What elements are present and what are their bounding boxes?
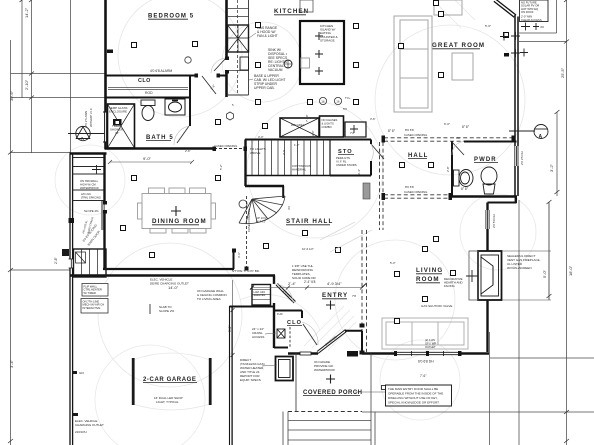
bifold dashed clo [289,327,291,347]
window dim marks below box [521,23,539,31]
window marks east wall [511,32,520,57]
toilet: pwdr [454,170,474,187]
water heater closet [276,357,294,381]
toilet: bath5 [141,100,155,121]
svg-text:3'-2": 3'-2" [549,163,554,172]
dim: fireplace 5ft [502,203,551,301]
tick marks on dashes [250,284,366,290]
svg-text:STORAGE: STORAGE [320,38,335,42]
svg-text:INTERACTIVE: INTERACTIVE [83,306,101,310]
stair rail line [245,175,330,177]
porch west line [295,354,297,413]
wall: step facade y153 [70,152,107,154]
svg-text:16: 16 [336,100,340,104]
svg-text:FUR: FUR [277,312,283,316]
svg-text:(2) 110V: (2) 110V [425,338,435,342]
door: garage entry diagonal [276,284,296,304]
coffee table great room [452,53,473,80]
wall: entry east vertical to south [361,331,363,354]
squares: bath/dining [121,120,268,231]
text: to lights above [250,147,266,155]
wall: dining south [103,268,234,270]
svg-text:4'0 6'8 ALARM: 4'0 6'8 ALARM [150,69,172,73]
ceiling sketch arcs [98,0,536,410]
label: KITCHEN [274,8,309,15]
marker: section A left [68,126,104,140]
note: base upper cab [254,74,285,90]
door leaf: STO [371,144,384,159]
svg-text:NO CHASES: NO CHASES [322,118,338,122]
barn door track gray [101,201,104,230]
wall: garage east [273,276,275,285]
cabinet base kitchen [248,0,250,95]
svg-text:2'-6": 2'-6" [185,149,191,153]
wall stub bedroom west [107,50,113,54]
dimension extension lines right side [490,0,567,445]
wall: bedroom west exterior [104,0,107,112]
wall: east exterior upper [515,15,518,196]
svg-text:2'-4" 6'8: 2'-4" 6'8 [304,280,316,284]
svg-text:8'0 6'8: 8'0 6'8 [405,128,414,132]
svg-text:2-CAR GARAGE: 2-CAR GARAGE [143,377,197,383]
stair treads [252,140,324,175]
svg-text:3'-4": 3'-4" [9,359,14,368]
black tick garage west wall [73,413,78,416]
note: slab slope [159,305,175,313]
window: garage west [69,259,74,268]
label: 2-CAR GARAGE [143,377,197,383]
wall: entry south west portion [288,352,318,354]
jamb ticks misc [103,57,515,355]
svg-text:CASED OPENING: CASED OPENING [214,144,237,148]
svg-text:DINING ROOM: DINING ROOM [152,218,207,225]
squares: entry area [150,244,386,390]
note: decorative hearth [444,277,463,288]
svg-text:VACUUM: VACUUM [268,68,283,72]
svg-text:2'-8": 2'-8" [54,256,58,264]
curved stair bottom [239,196,285,224]
lockers mud bench [74,249,107,277]
svg-text:7'-10": 7'-10" [305,114,309,122]
window: living east [486,210,489,229]
svg-text:CHARGING OUTLET: CHARGING OUTLET [75,423,104,427]
wall: dining west lower [103,212,105,270]
shower valve [113,119,122,126]
fridge: kitchen top [300,0,313,12]
svg-text:8'0 6'8: 8'0 6'8 [405,185,414,189]
svg-text:3'0: 3'0 [456,136,460,140]
wall: garage west exterior [70,154,73,445]
label: GREAT ROOM [432,42,485,49]
black tick garage west upper [69,218,75,223]
island stool [301,58,310,68]
note: shop light [154,396,183,404]
label: COVERED PORCH [303,390,363,396]
svg-text:10'-6 1/2": 10'-6 1/2" [302,247,314,251]
svg-text:5'6: 5'6 [343,107,347,111]
linen closet shelves [252,285,271,306]
label: ENTRY [322,292,348,299]
svg-text:W/ TIMER: W/ TIMER [84,291,96,295]
svg-text:WATERPROOF: WATERPROOF [80,186,99,190]
svg-text:TV+: TV+ [345,96,351,100]
svg-text:2'-10": 2'-10" [24,79,29,90]
hall dashed opening upper [384,138,514,141]
svg-text:3'-6": 3'-6" [237,252,241,258]
wall: stair north [245,139,371,141]
svg-text:A: A [539,134,543,140]
svg-text:@ 7.72": @ 7.72" [256,220,266,224]
svg-text:ROD: ROD [145,91,153,95]
dim: 9'-0" bath [108,160,194,164]
text: continuous handrail [292,164,311,172]
svg-text:25'-5": 25'-5" [560,67,565,78]
door leaf: bath5 [177,126,189,143]
svg-text:ON ROOF: ON ROOF [521,10,534,14]
sink: pwdr pedestal [481,167,497,194]
hall dashed opening lower [384,195,451,198]
wall: stair west [244,140,246,187]
crawl access hatch [277,329,285,338]
svg-text:HALL: HALL [408,153,428,159]
svg-text:FACING: FACING [444,284,456,288]
svg-text:14'-0": 14'-0" [168,285,179,290]
label: DINING ROOM [152,218,207,225]
svg-text:& LIGHTS: & LIGHTS [322,122,334,126]
wall: closet bottom / bath top [105,97,191,99]
wall: garage north [70,274,275,277]
svg-text:SHELVES: SHELVES [254,293,266,297]
windows: living south [397,352,458,355]
label: PWDR [474,157,498,163]
label: STAIR HALL [286,218,333,225]
small window ticks entry south [300,352,311,355]
wall: bath west lower [104,142,107,149]
wall: bath south long [105,147,215,150]
wall: east below pwdr jog [488,196,517,251]
svg-text:7'-6": 7'-6" [420,374,426,378]
label: HALL [408,153,428,159]
circle fixture bedroom [185,57,191,63]
svg-text:BEDROOM 5: BEDROOM 5 [148,14,194,20]
svg-text:ON TRK/WALL: ON TRK/WALL [80,179,99,183]
note box: top right [520,0,549,22]
svg-text:A/O 2x6: A/O 2x6 [81,192,91,196]
note: gas range [257,26,278,38]
svg-text:SLOPE 2%: SLOPE 2% [84,209,99,213]
label: CLO entry [287,320,302,326]
wall: stair hall jog [282,186,284,198]
svg-text:8° 8°: 8° 8° [461,187,469,191]
svg-text:W/TEMP V.I.F.: W/TEMP V.I.F. [89,107,93,127]
svg-text:18'-0": 18'-0" [568,265,573,276]
note: island text [320,24,338,42]
note: sink disposal [268,48,288,72]
svg-text:4'-9 3/4": 4'-9 3/4" [327,281,342,286]
note box: main entry door [386,385,452,406]
svg-text:3'-0": 3'-0" [258,135,264,139]
svg-text:W/ FAN+SCREEN: W/ FAN+SCREEN [507,266,532,270]
window: east wall pwdr [515,146,518,166]
wall: dining west [103,154,105,204]
door: main entry diagonal [317,330,347,354]
window plus side [92,165,101,174]
svg-text:14'-2": 14'-2" [24,7,29,18]
svg-text:PWDR: PWDR [474,157,497,163]
svg-text:5'-0": 5'-0" [542,269,547,278]
note: side strip text2 [81,192,101,199]
svg-text:3'6: 3'6 [287,206,291,210]
note box: mech interactive [81,299,108,314]
hex fixture bath [227,112,234,120]
cabinet dashed upper kitchen [237,0,239,95]
svg-text:CLEAR ACCESS: CLEAR ACCESS [521,18,542,22]
wall: hall to clo west jog [230,306,275,308]
hearth front [469,251,478,300]
plus marks on east wall mid [500,33,528,57]
wall: bath east [189,98,191,127]
svg-text:2'0 5'0 DH: 2'0 5'0 DH [492,214,496,228]
fireplace: living room [478,251,502,300]
svg-text:HANDRAIL: HANDRAIL [292,168,307,172]
svg-text:(TRK) SPACING: (TRK) SPACING [81,195,101,199]
svg-text:1'-2": 1'-2" [294,143,300,147]
cased opening dashes at bath south [214,148,245,150]
note: crawl access [252,327,264,339]
black mark garage west [62,249,69,256]
marker: section A right [509,125,548,139]
note: gas fireplace [507,254,541,270]
svg-text:5'-6": 5'-6" [485,24,491,28]
svg-text:2'-8: 2'-8 [282,150,286,155]
note: side strip text1 [80,179,99,190]
svg-text:2'-4": 2'-4" [288,281,297,286]
svg-text:GAS SHUTOFF VALVE: GAS SHUTOFF VALVE [421,304,452,308]
side porch steps strip [73,158,104,201]
dashed corridor entry [362,230,367,352]
svg-text:CLO: CLO [138,78,151,84]
svg-text:COMBO: COMBO [322,125,332,129]
room: CLO entry [274,310,302,348]
svg-text:5'-2": 5'-2" [219,164,223,170]
svg-text:W/D AREA: W/D AREA [291,123,305,127]
sink: kitchen [240,57,292,70]
wall: closet top bedroom5 [105,75,228,77]
svg-text:220/1PH: 220/1PH [75,430,87,434]
shower: bath5 tiled [108,104,135,148]
svg-text:6'0 6'8 DH: 6'0 6'8 DH [418,360,434,364]
note: gyp board garage [197,269,260,301]
shop light posts garage [132,358,135,405]
svg-text:ABOVE: ABOVE [250,151,260,155]
squares: hall [400,163,434,168]
porch steps [283,354,375,445]
svg-text:SLOPE 2%: SLOPE 2% [159,309,175,313]
box: W/D chase with X [280,118,319,137]
svg-text:8° 8°: 8° 8° [388,129,396,133]
note: on grade gfi [314,360,335,372]
svg-text:WATERPROOF: WATERPROOF [314,368,335,372]
door: sliding barn dining [104,203,106,212]
wall: kitchen west [225,0,228,97]
door leaf clo entry [303,324,317,345]
fireplace dim cross [466,270,478,282]
svg-text:COVERED PORCH: COVERED PORCH [303,390,363,396]
svg-text:GFI / WP: GFI / WP [425,341,436,345]
island pendant lights [315,32,323,75]
faint arcs extra [55,145,460,445]
room: STO [330,140,371,176]
svg-text:16: 16 [321,100,325,104]
room: PWDR walls [452,142,517,197]
svg-text:OUTLET: OUTLET [425,345,436,349]
door leaf: pwdr [452,142,464,155]
note: tankless water heater [240,358,265,382]
window: awning bath west [103,112,108,142]
pier: porch corner [347,351,358,357]
svg-text:36": 36" [115,131,119,135]
wall tick: great room east black [504,53,509,57]
label: LIVING ROOM [416,267,443,283]
svg-text:2'0 3'5 DH: 2'0 3'5 DH [520,151,524,165]
svg-text:8° 8°: 8° 8° [462,125,470,129]
squares: kitchen outlets [132,23,359,105]
label: BEDROOM 5 [148,14,194,20]
wall: below fireplace [486,300,488,352]
vanity: bath5 sink [165,99,185,115]
note: elec vehicle outlet top [150,278,189,286]
wall: stair south [245,185,284,187]
wall: living south [362,352,489,355]
svg-text:TO LIVING AREA: TO LIVING AREA [197,297,221,301]
svg-text:7'8: 7'8 [352,294,356,298]
svg-text:LIGHT, TYPICAL: LIGHT, TYPICAL [156,400,179,404]
note: reinforcing solid core [292,264,317,280]
svg-text:GREAT ROOM: GREAT ROOM [432,42,485,49]
closet shelf [108,88,188,90]
svg-text:GFI: GFI [79,371,84,375]
wall: dining east stub [233,250,235,269]
box: small chase right [345,122,366,137]
wall: entry angle to dashes [345,330,362,332]
box: no chases note [320,116,344,137]
svg-text:ENTRY: ENTRY [322,292,348,299]
chimney block stair [363,183,370,199]
svg-text:2'-6": 2'-6" [311,130,315,136]
door leaf: bedroom closet [202,76,216,94]
dimension line left outer [11,0,71,445]
sofa: great room sectional [394,0,462,112]
svg-text:FAN & LIGHT: FAN & LIGHT [257,34,278,38]
garage east wall lower [230,306,233,445]
svg-text:7'2: 7'2 [350,131,354,135]
rug lines living [320,222,372,252]
entry ceiling fixture [326,301,335,310]
svg-text:THE MAIN ENTRY DOOR SHALL BE: THE MAIN ENTRY DOOR SHALL BE [388,387,438,391]
note: elec vehicle bottom [75,419,104,427]
svg-text:OPERABLE FROM THE INSIDE OF TH: OPERABLE FROM THE INSIDE OF THE [388,392,443,396]
note box: flip wall ctrl [82,284,108,297]
svg-text:LIVING: LIVING [416,267,443,274]
svg-text:5'-3": 5'-3" [390,261,396,265]
svg-text:SPECIAL KNOWLEDGE OR EFFORT.: SPECIAL KNOWLEDGE OR EFFORT. [388,401,440,405]
svg-text:ACCESS: ACCESS [252,335,264,339]
svg-text:STAIR HALL: STAIR HALL [286,218,333,225]
wall: great room NE diagonal [494,0,516,17]
svg-text:6'-0": 6'-0" [444,122,450,126]
porch ceiling fixture [326,375,335,384]
svg-text:UNDER STAIRS: UNDER STAIRS [336,163,357,167]
svg-text:UPPER CAB.: UPPER CAB. [254,86,275,90]
svg-text:BATH 5: BATH 5 [146,135,174,141]
svg-text:9'-0": 9'-0" [143,156,152,161]
svg-text:CASED OPENING: CASED OPENING [404,133,427,137]
dim line garage east [231,280,235,445]
sofa: living room [382,318,468,349]
svg-text:ROOM: ROOM [416,276,440,283]
squares: great room [399,1,509,78]
text: up 13R [256,216,267,224]
dim line entry [252,286,364,290]
dashed corridor right of stair [380,142,384,230]
svg-text:2'-8": 2'-8" [446,166,450,172]
label: STO [338,149,354,155]
svg-text:DWELLING WITHOUT USE OF KEY,: DWELLING WITHOUT USE OF KEY, [388,396,438,400]
svg-text:2'6 2'6 AWN: 2'6 2'6 AWN [84,111,88,127]
dining table [138,188,216,233]
svg-text:3'-4": 3'-4" [357,169,361,175]
svg-text:EQUIP. SPECS: EQUIP. SPECS [240,378,261,382]
svg-text:HIGH W/ CM: HIGH W/ CM [80,182,96,186]
squares: living [303,231,456,324]
note: gfi wp [425,338,436,349]
svg-text:30'-6": 30'-6" [9,90,14,101]
svg-text:ENCLOSURE: ENCLOSURE [109,109,127,113]
svg-text:KITCHEN: KITCHEN [274,8,309,15]
horizontal extension lines left [11,74,106,271]
door leaf: bedroom5 entry [214,58,226,71]
cased opening dining east dashed [246,196,248,268]
island: kitchen [300,21,344,84]
range: gas range hatch [228,25,249,52]
svg-text:4'0: 4'0 [540,25,544,29]
label: BATH 5 [146,135,174,141]
dining ceiling fixture [171,206,181,216]
circles 16 over stair [319,97,341,104]
wall: closet east [189,76,191,98]
svg-text:CLO: CLO [287,320,302,326]
svg-text:CASED OPENING: CASED OPENING [404,190,427,194]
bottom right extension grid [362,33,594,412]
svg-text:CASED OPENING: CASED OPENING [247,209,251,232]
porch edge dashed [288,411,362,413]
svg-text:3'-6": 3'-6" [370,117,376,121]
